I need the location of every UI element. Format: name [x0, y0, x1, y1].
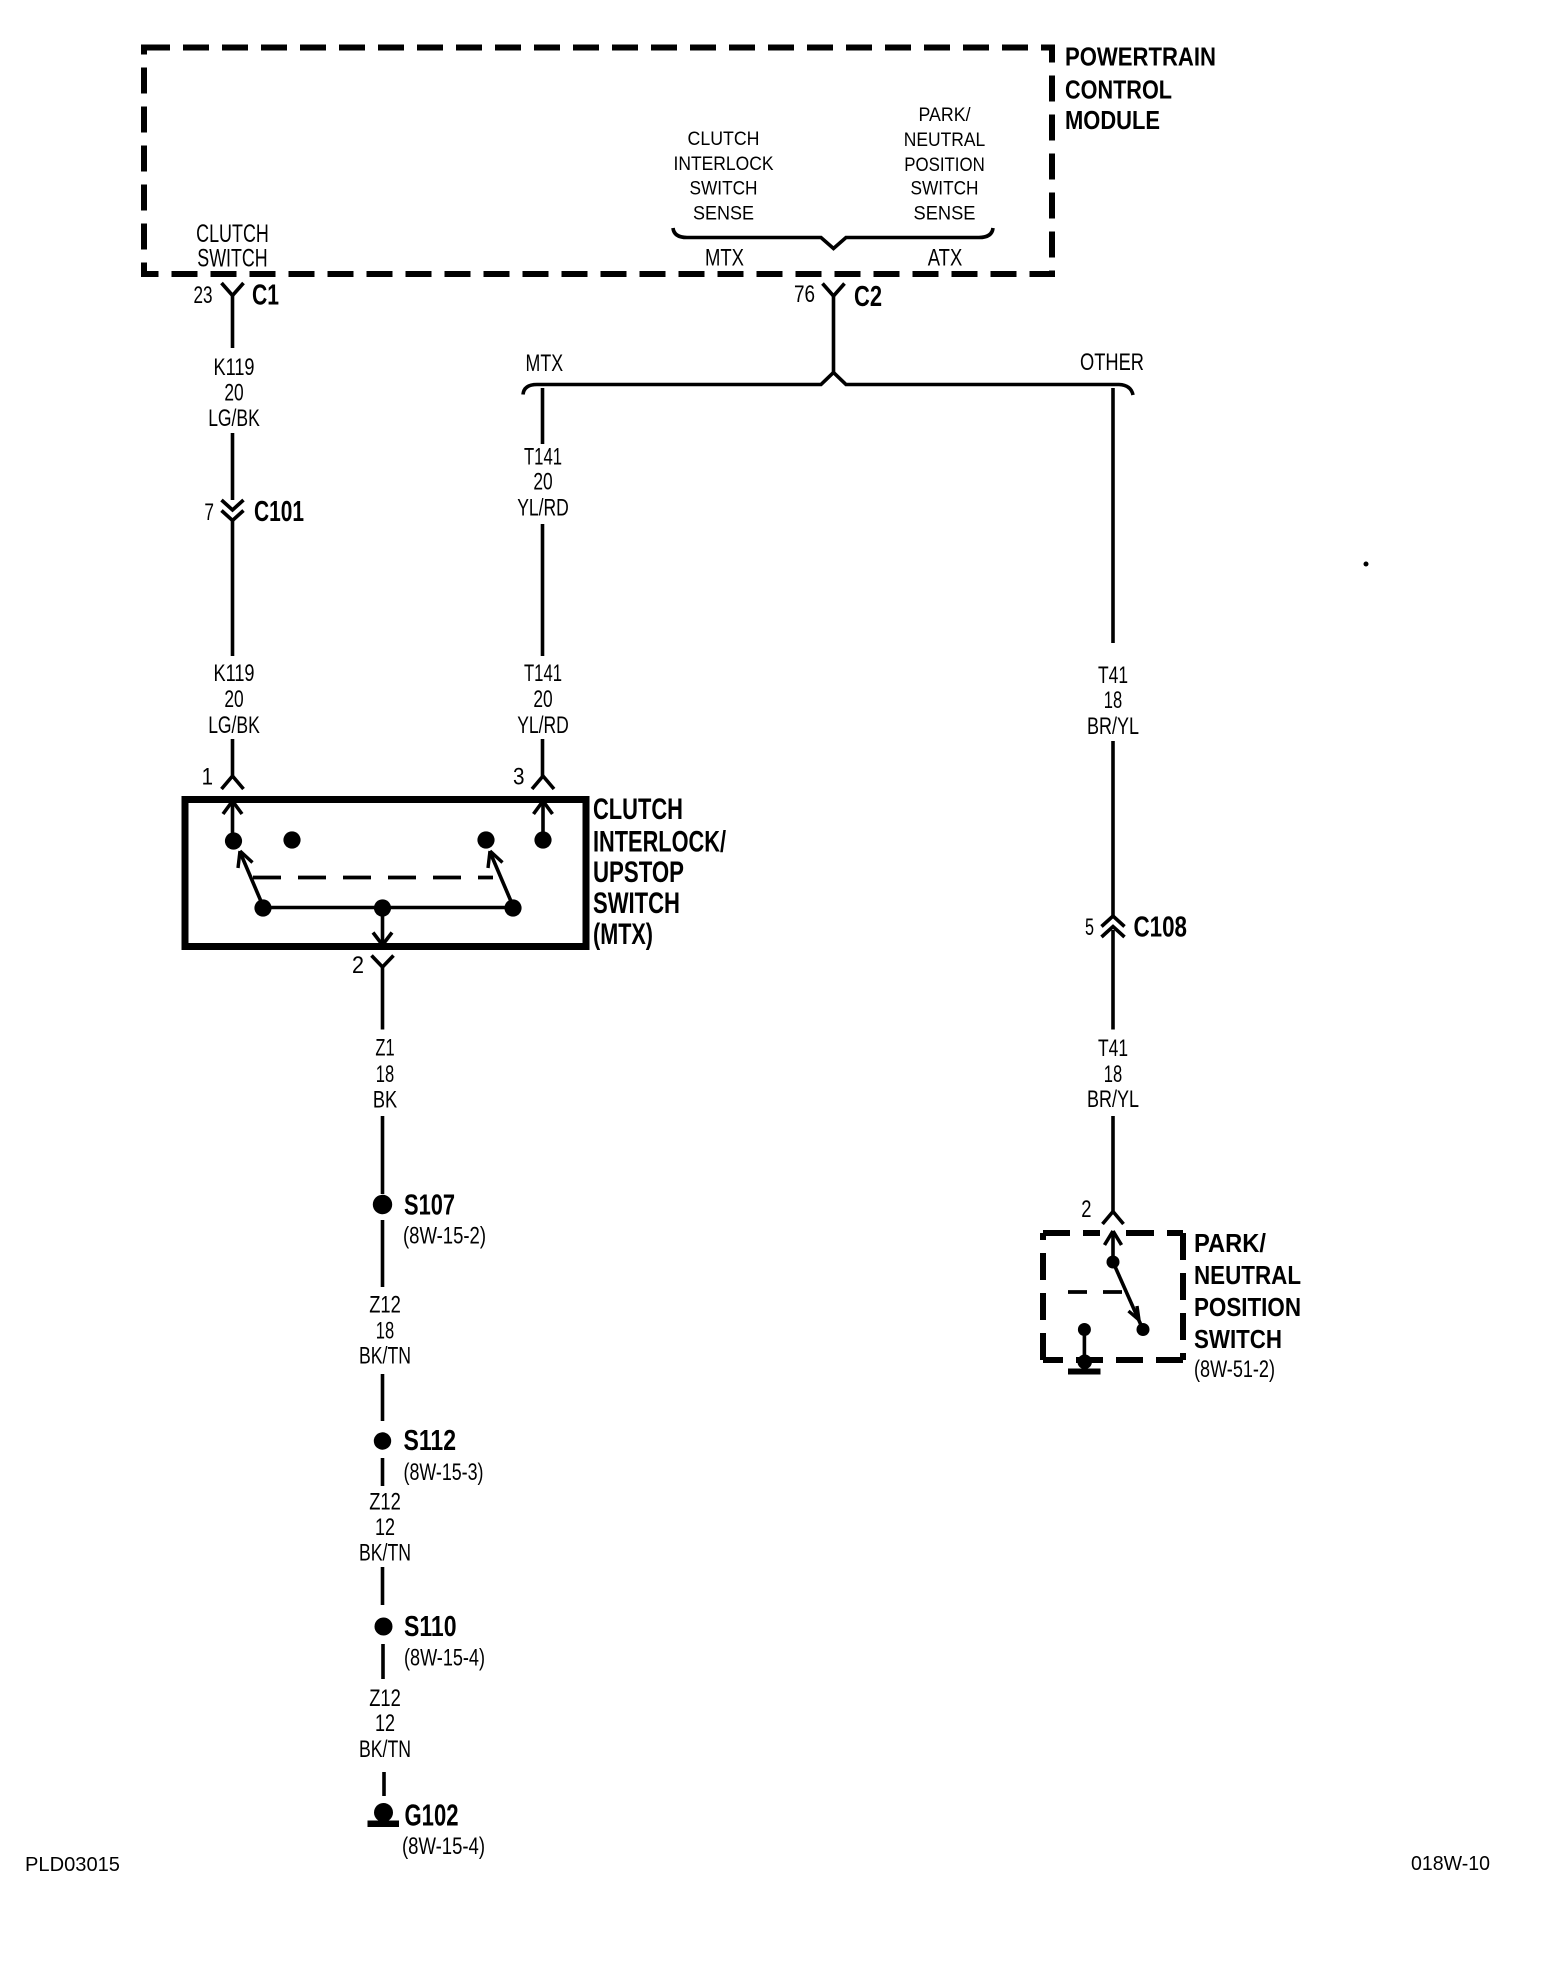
common bus wire in switch: [263, 906, 513, 910]
common node center: [374, 899, 391, 916]
PCM pin label: PARK/NEUTRAL POSITION SWITCH SENSE: [904, 105, 986, 225]
svg-text:CONTROL: CONTROL: [1065, 75, 1172, 105]
clutch interlock switch pin 3: [513, 764, 554, 791]
wire: [381, 1374, 385, 1421]
sheet number 018W-10: [1411, 1853, 1490, 1875]
node label MTX (under brace): [705, 245, 744, 272]
svg-text:UPSTOP: UPSTOP: [593, 856, 684, 889]
brace splitting MTX / OTHER: [523, 373, 1133, 396]
svg-text:SWITCH: SWITCH: [690, 179, 758, 200]
svg-text:OTHER: OTHER: [1080, 349, 1144, 376]
switch throw contact node: [1137, 1323, 1150, 1336]
svg-text:LG/BK: LG/BK: [208, 712, 260, 739]
splice S110: [375, 1611, 486, 1672]
connector C2 pin 76: [794, 281, 882, 313]
wire: [381, 1220, 385, 1287]
svg-text:20: 20: [533, 686, 552, 713]
svg-text:POWERTRAIN: POWERTRAIN: [1065, 42, 1216, 72]
svg-text:POSITION: POSITION: [904, 155, 985, 176]
ground G102: [368, 1798, 486, 1861]
wire T41 (OTHER branch): [1111, 388, 1115, 643]
wire from C2 to split: [832, 296, 836, 373]
svg-text:PARK/: PARK/: [1194, 1228, 1266, 1258]
svg-text:12: 12: [375, 1514, 395, 1541]
svg-text:Z12: Z12: [369, 1489, 401, 1516]
svg-text:T41: T41: [1098, 1035, 1128, 1062]
svg-text:K119: K119: [214, 354, 255, 381]
drawing number PLD03015: [25, 1854, 120, 1876]
svg-text:SENSE: SENSE: [914, 204, 976, 225]
wire: [231, 433, 235, 500]
pin 3 entry arrow inside box: [534, 801, 553, 841]
svg-text:SWITCH: SWITCH: [197, 245, 267, 273]
internal ground contact node: [1078, 1323, 1091, 1336]
switch arm left (pole 1): [238, 851, 263, 906]
svg-text:S112: S112: [404, 1425, 457, 1457]
svg-text:20: 20: [224, 686, 243, 713]
park/neutral switch pin 2: [1081, 1196, 1123, 1224]
wire: [1111, 1116, 1115, 1211]
common node right: [504, 899, 521, 916]
svg-text:BK/TN: BK/TN: [359, 1343, 411, 1370]
svg-text:76: 76: [794, 281, 815, 308]
switch box label: [593, 793, 726, 951]
brace joining MTX/ATX sense pins: [673, 228, 993, 249]
wire label K119 20 LG/BK (upper): [208, 354, 260, 432]
svg-text:(8W-15-2): (8W-15-2): [403, 1223, 486, 1250]
svg-text:T141: T141: [524, 444, 562, 471]
svg-text:PARK/: PARK/: [919, 105, 972, 126]
wire label K119 20 LG/BK (lower): [208, 660, 260, 739]
node label OTHER (branch): [1080, 349, 1144, 376]
PCM pin label: CLUTCH SWITCH: [196, 220, 269, 273]
svg-text:20: 20: [224, 380, 243, 407]
pin 2 exit wire with down arrow: [373, 908, 392, 945]
wire label T141 20 YL/RD (lower): [517, 660, 569, 739]
wire: [541, 739, 545, 776]
svg-text:T141: T141: [524, 660, 562, 687]
scan speck: [1364, 562, 1369, 567]
svg-text:CLUTCH: CLUTCH: [688, 129, 760, 150]
wire label T41 18 BR/YL (lower): [1087, 1035, 1139, 1113]
switch pin 2 connector: [352, 952, 394, 979]
svg-text:018W-10: 018W-10: [1411, 1853, 1490, 1875]
node label MTX (branch): [526, 350, 564, 377]
switch contact node (open): [283, 831, 300, 848]
svg-text:(MTX): (MTX): [593, 918, 653, 951]
svg-text:Z12: Z12: [369, 1685, 401, 1712]
pin 2 entry arrow inside box: [1105, 1231, 1122, 1262]
svg-text:(8W-51-2): (8W-51-2): [1194, 1356, 1275, 1383]
switch pole node: [1107, 1256, 1120, 1269]
ganged dashed link: [1068, 1290, 1123, 1294]
svg-text:C108: C108: [1134, 912, 1188, 944]
svg-text:Z12: Z12: [369, 1292, 401, 1319]
svg-text:LG/BK: LG/BK: [208, 405, 260, 432]
svg-text:BK/TN: BK/TN: [359, 1736, 411, 1763]
switch contact node (open): [477, 831, 494, 848]
svg-text:MTX: MTX: [705, 245, 744, 272]
svg-text:(8W-15-4): (8W-15-4): [404, 1645, 485, 1672]
svg-text:Z1: Z1: [375, 1035, 394, 1062]
svg-text:3: 3: [513, 764, 525, 791]
svg-text:K119: K119: [214, 660, 255, 687]
wire: [1111, 930, 1115, 1030]
svg-text:CLUTCH: CLUTCH: [593, 793, 683, 826]
powertrain control module U1 (PCM) dashed box: [144, 48, 1052, 275]
PCM title label: [1065, 42, 1216, 136]
wire: [541, 524, 545, 656]
connector C101 pin 7 (in-line, chevrons): [204, 496, 304, 528]
svg-text:23: 23: [194, 282, 213, 309]
svg-text:18: 18: [376, 1061, 394, 1088]
wire label Z12 12 BK/TN (to ground): [359, 1685, 411, 1763]
svg-text:MODULE: MODULE: [1065, 105, 1160, 135]
svg-text:G102: G102: [405, 1798, 459, 1833]
svg-text:NEUTRAL: NEUTRAL: [1194, 1260, 1301, 1290]
node label ATX (under brace): [928, 245, 963, 272]
wire K119 from C1: [231, 296, 235, 349]
svg-text:T41: T41: [1098, 662, 1128, 689]
connector C108 pin 5 (in-line, chevrons): [1085, 912, 1187, 944]
wire label T141 20 YL/RD (upper): [517, 444, 569, 522]
splice S107: [373, 1190, 486, 1250]
svg-text:S107: S107: [404, 1190, 455, 1222]
clutch interlock/upstop switch S1 box: [185, 800, 586, 947]
wire: [382, 1772, 386, 1796]
svg-text:BR/YL: BR/YL: [1087, 713, 1139, 740]
switch box label: [1194, 1228, 1301, 1354]
svg-text:SWITCH: SWITCH: [911, 179, 979, 200]
svg-text:C101: C101: [254, 496, 304, 528]
wire T141 (MTX branch): [541, 388, 545, 444]
svg-text:NEUTRAL: NEUTRAL: [904, 130, 986, 151]
wire: [1111, 741, 1115, 916]
wire label Z1 18 BK: [373, 1035, 397, 1114]
svg-text:7: 7: [204, 499, 214, 526]
svg-text:BK: BK: [373, 1087, 397, 1114]
svg-text:18: 18: [1104, 1061, 1122, 1088]
svg-text:BK/TN: BK/TN: [359, 1540, 411, 1567]
svg-text:2: 2: [1081, 1196, 1091, 1223]
internal ground wire: [1083, 1330, 1087, 1356]
switch arm (to ground contact): [1113, 1262, 1143, 1330]
ganged-switch dashed link: [253, 876, 493, 880]
common node left: [254, 899, 271, 916]
switch contact node (pin 3): [534, 831, 551, 848]
wire: [231, 521, 235, 656]
wire: [381, 1116, 385, 1194]
svg-text:INTERLOCK/: INTERLOCK/: [593, 826, 726, 859]
svg-text:PLD03015: PLD03015: [25, 1854, 120, 1876]
switch box reference (8W-51-2): [1194, 1356, 1275, 1383]
svg-text:ATX: ATX: [928, 245, 963, 272]
svg-text:INTERLOCK: INTERLOCK: [674, 154, 774, 175]
svg-text:YL/RD: YL/RD: [517, 495, 569, 522]
svg-text:MTX: MTX: [526, 350, 564, 377]
svg-text:1: 1: [202, 764, 213, 791]
svg-text:20: 20: [533, 469, 552, 496]
PCM pin label: CLUTCH INTERLOCK SWITCH SENSE: [674, 129, 774, 225]
svg-text:(8W-15-3): (8W-15-3): [404, 1459, 484, 1486]
svg-text:SWITCH: SWITCH: [1194, 1324, 1282, 1354]
wire label T41 18 BR/YL (upper): [1087, 662, 1139, 740]
svg-text:18: 18: [376, 1318, 394, 1345]
svg-text:SWITCH: SWITCH: [593, 887, 680, 920]
wire: [231, 739, 235, 776]
svg-text:C2: C2: [854, 281, 882, 313]
wire: [381, 1458, 385, 1486]
switch arm right (pole 2): [488, 851, 513, 906]
svg-text:S110: S110: [404, 1611, 457, 1643]
svg-text:18: 18: [1104, 687, 1122, 714]
svg-text:5: 5: [1085, 914, 1094, 941]
svg-text:SENSE: SENSE: [693, 204, 754, 225]
svg-text:(8W-15-4): (8W-15-4): [402, 1833, 485, 1860]
park/neutral position switch S2 dashed box: [1043, 1233, 1183, 1360]
pin 1 entry arrow inside box: [223, 801, 242, 841]
svg-text:BR/YL: BR/YL: [1087, 1086, 1139, 1113]
wire: [381, 1644, 385, 1679]
wire: [381, 1567, 385, 1605]
svg-text:12: 12: [375, 1710, 395, 1737]
splice S112: [374, 1425, 484, 1486]
internal ground symbol: [1068, 1355, 1101, 1375]
svg-text:POSITION: POSITION: [1194, 1292, 1301, 1322]
switch contact node (pin 1): [225, 832, 242, 849]
clutch interlock switch pin 1: [202, 764, 244, 791]
svg-text:C1: C1: [252, 280, 279, 312]
svg-text:YL/RD: YL/RD: [517, 712, 569, 739]
connector C1 pin 23: [194, 280, 280, 312]
wire label Z12 12 BK/TN: [359, 1489, 411, 1567]
wire label Z12 18 BK/TN: [359, 1292, 411, 1370]
wire Z1: [381, 967, 385, 1030]
svg-text:2: 2: [352, 952, 364, 979]
